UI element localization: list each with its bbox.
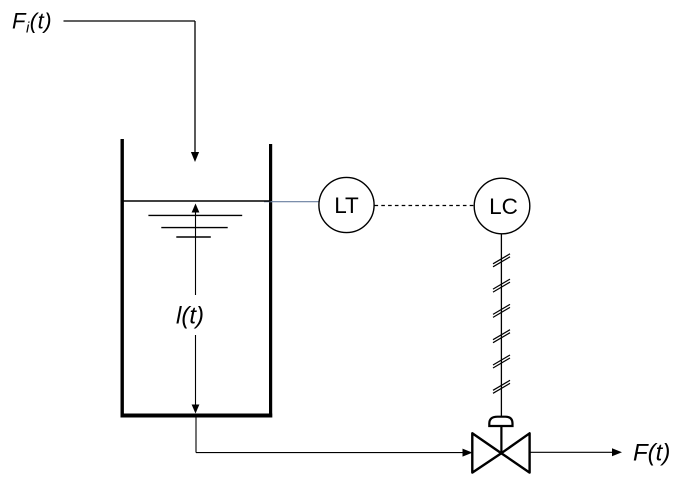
arrowhead into valve xyxy=(463,449,473,457)
tank left wall xyxy=(121,139,124,418)
svg-text:F(t): F(t) xyxy=(633,440,670,467)
signal dashed LT to LC xyxy=(375,205,475,207)
tank bottom xyxy=(121,414,273,418)
instrument LC circle xyxy=(474,178,530,234)
wire inflow horizontal xyxy=(64,20,196,22)
tank right wall xyxy=(269,144,272,418)
wire outlet vertical from tank xyxy=(195,418,197,453)
valve body left triangle xyxy=(472,433,501,472)
svg-text:l(t): l(t) xyxy=(176,303,204,330)
instrument LT circle xyxy=(319,177,374,232)
arrowhead level down xyxy=(192,405,200,414)
arrowhead outlet right xyxy=(612,448,622,456)
liquid level line xyxy=(122,200,271,202)
level dimension line xyxy=(195,210,197,407)
surface mark 1 xyxy=(148,214,242,216)
pneumatic slash marks xyxy=(493,254,510,393)
valve actuator dome xyxy=(489,417,512,426)
wire inflow vertical xyxy=(194,21,196,153)
svg-text:LC: LC xyxy=(489,194,518,219)
surface mark 2 xyxy=(161,227,227,229)
valve stem xyxy=(500,427,502,453)
liquid level tap line (blue) xyxy=(264,201,319,203)
label l(t) backing xyxy=(172,295,210,335)
surface mark 3 xyxy=(176,236,211,238)
svg-text:Fi(t): Fi(t) xyxy=(12,9,52,37)
pneumatic signal line LC to valve xyxy=(500,234,502,416)
arrowhead level up xyxy=(192,204,200,213)
arrowhead inflow down xyxy=(191,152,199,162)
svg-text:LT: LT xyxy=(334,193,359,218)
valve body right triangle xyxy=(501,433,529,472)
wire outlet from valve xyxy=(530,451,613,453)
wire outlet horizontal to valve xyxy=(196,452,464,454)
